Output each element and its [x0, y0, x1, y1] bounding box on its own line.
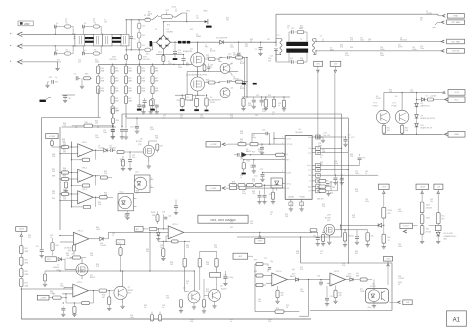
svg-text:pwb: pwb — [433, 27, 436, 29]
connector +COMP mid — [206, 142, 228, 147]
res R51 — [382, 207, 393, 226]
svg-text:4K7: 4K7 — [442, 218, 445, 220]
svg-text:BUT08: BUT08 — [136, 141, 142, 143]
zener ZD13 — [420, 215, 430, 226]
svg-text:R35: R35 — [330, 193, 333, 195]
wire OUT- rail — [315, 50, 441, 54]
ic U1 bottom labels — [289, 196, 306, 199]
cap C20 — [315, 133, 331, 143]
svg-text:ZD13: ZD13 — [426, 218, 430, 220]
choke T1 right box — [87, 34, 103, 46]
svg-text:S-101: S-101 — [172, 7, 177, 9]
svg-text:COMP: COMP — [257, 241, 263, 243]
res into OP2-4 — [149, 227, 168, 230]
svg-text:470p: 470p — [345, 55, 349, 57]
svg-text:BOARD HIL T8: BOARD HIL T8 — [421, 127, 433, 130]
r-c pin2 — [228, 142, 282, 154]
wire Q5 — [65, 258, 82, 279]
svg-text:C4xx: C4xx — [158, 52, 162, 54]
col2 wire down — [110, 114, 114, 140]
svg-text:+400V: +400V — [420, 186, 426, 188]
svg-text:BAV7B: BAV7B — [290, 275, 296, 278]
diode filled pin3 — [234, 152, 284, 158]
svg-text:+400V: +400V — [19, 229, 25, 231]
trans pair wiring — [183, 241, 218, 295]
connector N input arrow — [10, 44, 22, 49]
svg-text:6K8: 6K8 — [232, 184, 235, 186]
optocoupler U7 PC817 — [366, 284, 389, 304]
res row 5 — [272, 97, 275, 108]
svg-text:R58: R58 — [339, 293, 342, 295]
svg-text:(3Gx): (3Gx) — [368, 307, 372, 309]
svg-text:1u: 1u — [365, 173, 367, 175]
svg-text:1n: 1n — [162, 307, 164, 309]
cap C58 — [325, 286, 333, 306]
wire B+ rail — [170, 42, 276, 43]
svg-text:R34: R34 — [332, 187, 335, 189]
svg-text:10n: 10n — [132, 157, 135, 159]
svg-text:C31: C31 — [36, 246, 39, 248]
svg-text:D2 04/03/5FR: D2 04/03/5FR — [216, 38, 228, 40]
connector PE input arrow — [10, 60, 22, 65]
label LNK — [186, 95, 193, 100]
svg-text:R45: R45 — [56, 245, 59, 247]
svg-text:+COMP: +COMP — [40, 297, 47, 299]
svg-text:-: - — [169, 226, 170, 230]
svg-text:100p: 100p — [95, 137, 99, 139]
svg-text:BAV99 (4x): BAV99 (4x) — [421, 105, 430, 108]
wire sync vertical — [346, 147, 348, 149]
snubber pair top-right — [83, 23, 102, 35]
res row 4 — [264, 97, 268, 111]
flag +15V near T4 — [314, 61, 323, 137]
svg-text:R4x: R4x — [371, 236, 374, 238]
svg-text:C38: C38 — [48, 77, 51, 79]
r row pin6 — [228, 184, 282, 187]
cap pin6 — [257, 185, 266, 204]
cap softstart — [254, 169, 282, 181]
q net parts — [341, 229, 374, 247]
snubber pair bottom-right — [83, 46, 102, 55]
res R6c to gnd — [161, 241, 165, 260]
svg-text:R1: R1 — [66, 23, 68, 25]
svg-text:1n: 1n — [290, 60, 292, 62]
capacitor X-cap C1 — [74, 34, 80, 46]
svg-text:OUT BD: OUT BD — [452, 51, 460, 53]
resistor chain col 1 — [97, 64, 105, 93]
svg-text:R40: R40 — [85, 122, 88, 124]
svg-text:OUT HBD: OUT HBD — [451, 22, 461, 24]
ic U1 ground pins — [289, 199, 304, 211]
svg-text:0R22: 0R22 — [248, 105, 252, 107]
wire left bus down — [20, 289, 22, 319]
svg-text:R54: R54 — [426, 229, 429, 231]
svg-text:3K 4W: 3K 4W — [426, 231, 431, 233]
wire bus drop — [43, 271, 47, 286]
res R75 — [52, 294, 66, 300]
svg-text:X2: X2 — [65, 21, 67, 23]
svg-text:+COMP: +COMP — [49, 136, 56, 138]
svg-text:R88: R88 — [52, 176, 55, 178]
svg-text:R55: R55 — [160, 146, 163, 148]
connector box A13 — [233, 253, 253, 259]
wire opamp top rail — [62, 126, 116, 127]
resistor chain col 2 — [111, 64, 119, 113]
svg-text:+15V: +15V — [382, 186, 387, 188]
driver Q4 — [220, 88, 233, 98]
second long line — [126, 118, 348, 153]
svg-text:R56: R56 — [254, 271, 257, 273]
snubber row2 — [219, 80, 257, 97]
res stack OP2-3 inputs — [254, 260, 272, 287]
cap C53 to gnd — [174, 200, 178, 215]
flag +15V col — [378, 184, 389, 207]
svg-text:C47: C47 — [267, 39, 270, 41]
svg-text:OP1-4: OP1-4 — [77, 230, 82, 232]
flag +COMP2 — [255, 232, 265, 243]
svg-text:1n: 1n — [287, 28, 289, 30]
cap C23 — [251, 130, 270, 145]
connector +15V — [442, 90, 465, 96]
resistor chain col 4 — [138, 64, 146, 93]
resistor stack R5 — [137, 20, 145, 33]
routing wire 1 — [237, 236, 392, 310]
svg-text:BC847: BC847 — [128, 290, 134, 292]
res row OP1-4 bottom — [70, 254, 86, 260]
svg-text:1: 1 — [151, 178, 152, 180]
svg-text:100p: 100p — [300, 291, 304, 293]
label HOT — [186, 11, 191, 13]
svg-text:470p: 470p — [242, 193, 246, 195]
switch S1 — [151, 15, 161, 20]
ic U1 body — [285, 129, 312, 199]
resistor stack R7 — [137, 42, 145, 50]
flag +COMP upper — [46, 134, 60, 147]
svg-text:Sy2: Sy2 — [308, 187, 311, 189]
NTC2 oval bottom — [145, 42, 157, 55]
svg-text:ML4801: ML4801 — [296, 132, 304, 134]
resistor R31 — [382, 124, 391, 135]
svg-text:(T6): (T6) — [327, 220, 331, 222]
svg-text:C7: C7 — [255, 49, 257, 51]
mosfet Q1 — [183, 49, 205, 67]
capacitor X2 C6 — [129, 20, 135, 50]
svg-text:2n2: 2n2 — [368, 41, 371, 43]
svg-text:Q5: Q5 — [183, 288, 185, 290]
svg-text:2n2: 2n2 — [78, 62, 81, 64]
svg-text:GP1: GP1 — [47, 259, 51, 261]
snubber pair bottom-left — [55, 46, 74, 55]
svg-text:15: 15 — [301, 204, 303, 206]
res above U2 — [149, 141, 163, 153]
svg-text:100n: 100n — [318, 145, 322, 147]
svg-text:20N60: 20N60 — [196, 36, 201, 38]
svg-text:R68: R68 — [356, 276, 359, 278]
svg-text:R26: R26 — [268, 95, 271, 97]
svg-text:OP2-3: OP2-3 — [276, 271, 281, 273]
svg-text:1n: 1n — [55, 77, 57, 79]
r pair pin10 — [317, 179, 333, 185]
svg-text:R50: R50 — [116, 120, 119, 122]
svg-text:-: - — [79, 144, 80, 148]
box input section — [42, 118, 101, 250]
svg-text:100n: 100n — [355, 173, 359, 175]
wire U2 down — [147, 157, 151, 169]
r pin7 — [206, 185, 282, 204]
wire PE — [21, 62, 58, 68]
label C14 — [268, 56, 273, 63]
q7b lower parts — [313, 232, 332, 246]
resistor R32 — [400, 124, 409, 135]
res cap mid stage — [198, 63, 211, 72]
svg-text:L2: L2 — [320, 36, 322, 38]
wire into opto U7 — [368, 280, 377, 310]
wire bottom bus — [21, 318, 311, 320]
opto U3 upper — [134, 172, 153, 193]
wire pin1 — [273, 132, 281, 144]
op-amp OP2-2 wiring — [21, 287, 98, 304]
ic right bus verticals — [317, 181, 338, 201]
svg-text:C4: C4 — [56, 50, 58, 52]
svg-text:Sync: Sync — [307, 165, 311, 167]
cap black mark left of bridge — [150, 41, 152, 46]
wire bottom rail right — [383, 134, 442, 135]
svg-text:+: + — [79, 153, 81, 157]
svg-text:-: - — [331, 273, 332, 277]
label HB2 — [204, 11, 209, 13]
cap C21 right — [317, 135, 355, 147]
cap under opto — [125, 211, 129, 219]
cap R C row 1 — [241, 97, 245, 111]
svg-text:TXOUT: TXOUT — [403, 226, 410, 228]
svg-text:+COMP: +COMP — [210, 144, 218, 146]
svg-text:C54: C54 — [255, 115, 258, 117]
trans pair grounds — [179, 295, 217, 313]
svg-text:A12: A12 — [118, 241, 121, 244]
wire feedback rail opamps — [71, 142, 72, 208]
svg-text:R5x: R5x — [442, 216, 445, 218]
svg-text:2: 2 — [151, 186, 152, 188]
svg-text:C12: C12 — [291, 28, 294, 30]
svg-text:R46: R46 — [116, 110, 119, 112]
svg-text:+: + — [79, 200, 81, 204]
svg-text:EE42: EE42 — [330, 50, 334, 52]
svg-text:4R6 3R1: 4R6 3R1 — [317, 199, 324, 201]
op-amp OP1-3 wiring — [60, 192, 113, 208]
svg-text:100n: 100n — [398, 211, 402, 213]
svg-text:C15: C15 — [256, 95, 259, 97]
svg-text:AGND: AGND — [289, 196, 295, 199]
zener ZD12 — [420, 202, 431, 215]
connector OUT HBD top — [447, 20, 465, 25]
svg-text:OP1-2: OP1-2 — [82, 167, 87, 169]
svg-text:1n: 1n — [272, 114, 274, 116]
connector OUT BD — [441, 49, 464, 54]
flag +5V col — [434, 184, 443, 213]
res R53 — [436, 213, 444, 226]
svg-text:C9: C9 — [74, 74, 76, 76]
svg-text:C4x: C4x — [351, 236, 354, 238]
diode pair OP2-4 — [156, 226, 163, 241]
svg-text:CPULB: CPULB — [286, 144, 293, 146]
cap C8 — [143, 98, 147, 108]
svg-text:PGND: PGND — [300, 197, 306, 199]
svg-text:BYV26: BYV26 — [210, 51, 215, 53]
varistor VDR1 — [110, 50, 128, 64]
svg-text:C26: C26 — [134, 127, 137, 129]
svg-text:UF4007: UF4007 — [233, 79, 239, 81]
mosfet U2 small — [134, 139, 154, 157]
black ground bar — [40, 97, 52, 102]
cap row 2 — [252, 97, 256, 108]
wire bottom row — [126, 49, 145, 50]
svg-text:X2: X2 — [93, 21, 95, 23]
svg-text:1n: 1n — [210, 67, 212, 69]
cap C5x — [223, 271, 227, 286]
node bridge feed — [162, 22, 164, 36]
op-amp gate drive line — [122, 114, 342, 237]
svg-text:10n: 10n — [160, 247, 163, 249]
wire minus rail — [98, 64, 195, 65]
svg-text:100n: 100n — [410, 92, 414, 94]
flag V+ right — [383, 257, 392, 286]
svg-text:-COMP: -COMP — [210, 188, 217, 190]
flag +24V near T4 — [330, 61, 341, 175]
varistor VDR2 — [138, 50, 150, 64]
svg-text:R30: R30 — [350, 47, 353, 49]
svg-text:GND: GND — [454, 134, 459, 136]
svg-text:10n: 10n — [250, 167, 253, 169]
svg-text:+: + — [74, 293, 76, 297]
cap C35 — [120, 126, 133, 139]
op-amp OP1-3 — [78, 189, 94, 204]
res R49 — [310, 229, 317, 232]
cap C38 input — [45, 77, 58, 88]
cap C14 — [274, 42, 289, 62]
svg-text:4K7: 4K7 — [355, 253, 358, 255]
svg-text:100n: 100n — [365, 201, 369, 203]
wire pin9 right — [317, 151, 365, 165]
box A12 — [116, 240, 125, 272]
svg-text:470p: 470p — [334, 163, 338, 165]
svg-text:R28: R28 — [247, 161, 250, 163]
svg-text:1n: 1n — [163, 117, 165, 119]
svg-text:R27: R27 — [252, 152, 255, 154]
svg-text:100n: 100n — [60, 286, 64, 288]
svg-text:BOARD HIL P/P3S: BOARD HIL P/P3S — [421, 117, 436, 120]
choke T2 right box — [114, 34, 129, 46]
bridge rectifier D1 — [156, 29, 173, 49]
RC to ground — [74, 74, 92, 89]
svg-text:4K7: 4K7 — [240, 141, 243, 143]
wire left link — [237, 237, 255, 312]
svg-text:+: + — [331, 282, 333, 286]
diode D2 inline — [216, 38, 228, 45]
svg-text:1K8: 1K8 — [240, 159, 243, 161]
svg-text:R90: R90 — [52, 198, 55, 200]
svg-text:BC857: BC857 — [240, 63, 245, 65]
svg-text:4K7: 4K7 — [146, 251, 149, 253]
resistor chain col 5 — [151, 64, 159, 93]
svg-text:A1: A1 — [453, 317, 461, 323]
svg-text:R52: R52 — [388, 237, 391, 239]
svg-text:20: 20 — [290, 204, 292, 206]
op-amp OP1-2 — [78, 167, 94, 182]
connector TXOUT — [400, 223, 418, 233]
wire mid stage — [187, 71, 238, 95]
choke T1 left box — [75, 34, 85, 46]
shunt links — [178, 41, 190, 44]
ic U1 left pins — [282, 137, 293, 190]
svg-text:R3: R3 — [66, 50, 68, 52]
svg-text:C19: C19 — [362, 158, 365, 160]
svg-text:BUT08: BUT08 — [325, 217, 331, 219]
driver Q3 — [220, 63, 233, 73]
svg-text:C2: C2 — [56, 23, 58, 25]
svg-text:100n: 100n — [398, 246, 402, 248]
wire U5 collector — [383, 93, 385, 111]
cap C31 — [36, 246, 44, 258]
svg-text:C30: C30 — [68, 98, 71, 100]
res right OP1-2 — [100, 176, 112, 179]
svg-text:BC847: BC847 — [221, 288, 227, 290]
caps bottom left — [61, 302, 77, 316]
mosfet Q2 — [186, 75, 208, 92]
resistor R19 gate1 — [202, 58, 220, 61]
svg-text:VCC: VCC — [454, 99, 459, 101]
wire Q2 source — [175, 91, 205, 96]
svg-text:LL4148: LL4148 — [426, 13, 432, 15]
svg-text:C35: C35 — [130, 127, 133, 129]
svg-text:(4Pk): (4Pk) — [443, 238, 447, 240]
svg-text:5: 5 — [282, 171, 283, 173]
op-amp OP2-1 — [330, 271, 346, 286]
cap C30 pair — [62, 95, 76, 103]
svg-text:R30: R30 — [269, 194, 272, 196]
svg-text:C23: C23 — [262, 130, 265, 132]
op-amp OP1-1 wiring — [60, 142, 103, 162]
svg-text:R85: R85 — [62, 146, 65, 148]
svg-text:R74: R74 — [276, 308, 279, 310]
ic right vert wires — [317, 153, 379, 264]
wire OP2-4 out — [109, 232, 319, 233]
svg-text:100n: 100n — [360, 40, 364, 42]
svg-text:C57: C57 — [264, 258, 267, 260]
hook wire out — [433, 21, 445, 29]
svg-text:SBL2040: SBL2040 — [400, 40, 407, 42]
mosfet Q7B — [324, 215, 335, 236]
cap C26 below — [134, 117, 140, 133]
svg-text:220u: 220u — [168, 63, 172, 65]
mosfet Q5 small — [53, 264, 88, 276]
svg-text:C15: C15 — [228, 54, 231, 56]
svg-text:D5: D5 — [187, 97, 189, 99]
col4 term cap — [137, 94, 142, 111]
resistor stack R6 — [137, 32, 145, 42]
choke T2 core — [112, 37, 121, 43]
wire N rail to bottom row — [125, 46, 127, 50]
cap C56 — [309, 276, 330, 287]
svg-text:OUT HBD: OUT HBD — [451, 41, 461, 43]
svg-text:CPxxx: CPxxx — [286, 184, 291, 186]
res R52 — [382, 225, 391, 249]
svg-text:LL4148: LL4148 — [100, 245, 106, 247]
svg-text:LL4148: LL4148 — [98, 148, 104, 150]
connector SGND — [442, 132, 465, 138]
opto U7 out — [390, 300, 413, 305]
box T2 component — [210, 273, 234, 290]
svg-text:1000u: 1000u — [380, 49, 385, 51]
